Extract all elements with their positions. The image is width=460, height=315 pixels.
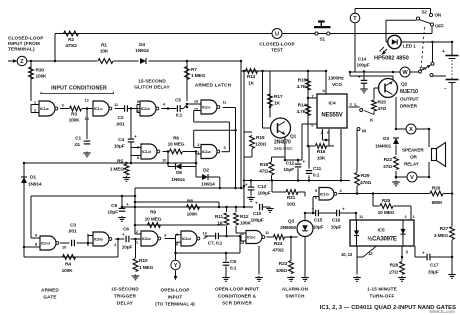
svg-text:10μF: 10μF — [107, 210, 118, 216]
svg-text:15-SECOND: 15-SECOND — [138, 79, 166, 84]
svg-text:470Ω: 470Ω — [272, 248, 284, 254]
svg-text:1N914: 1N914 — [201, 182, 215, 188]
svg-text:TERMINAL): TERMINAL) — [8, 47, 35, 52]
svg-text:33μF: 33μF — [428, 270, 439, 276]
svg-text:10K: 10K — [100, 49, 109, 55]
svg-text:R10: R10 — [139, 258, 148, 264]
svg-text:R30: R30 — [36, 68, 45, 74]
svg-text:OUTPUT: OUTPUT — [400, 97, 419, 102]
svg-text:C8: C8 — [230, 259, 236, 265]
svg-text:RELAY: RELAY — [404, 162, 420, 167]
svg-text:0.1: 0.1 — [176, 113, 183, 119]
svg-text:100K: 100K — [69, 118, 81, 124]
svg-text:R28: R28 — [390, 263, 399, 269]
svg-text:R8: R8 — [187, 199, 193, 205]
svg-text:R29: R29 — [361, 173, 370, 179]
svg-text:12: 12 — [368, 251, 373, 256]
svg-text:2N5060: 2N5060 — [280, 225, 296, 231]
svg-text:3 MEG: 3 MEG — [434, 233, 449, 239]
svg-text:X: X — [409, 127, 413, 133]
svg-text:47Ω: 47Ω — [378, 106, 387, 112]
svg-text:10μF: 10μF — [331, 225, 342, 231]
svg-text:R16: R16 — [317, 149, 326, 155]
svg-text:DRIVER: DRIVER — [400, 104, 418, 109]
svg-text:27Ω: 27Ω — [383, 164, 392, 170]
svg-text:INPUT CONDITIONER: INPUT CONDITIONER — [51, 86, 107, 92]
svg-text:Z: Z — [20, 59, 24, 65]
svg-text:TEST: TEST — [271, 48, 283, 53]
svg-text:15-SECOND: 15-SECOND — [111, 287, 139, 292]
svg-text:IC3-c: IC3-c — [247, 235, 256, 240]
svg-text:NE555V: NE555V — [321, 113, 342, 119]
svg-text:10μF: 10μF — [283, 167, 294, 173]
svg-text:W: W — [402, 70, 408, 76]
svg-text:R15: R15 — [298, 78, 307, 84]
svg-text:C14: C14 — [358, 57, 367, 62]
svg-text:SPEAKER: SPEAKER — [402, 148, 424, 153]
svg-text:C6: C6 — [123, 227, 129, 233]
svg-text:470Ω: 470Ω — [360, 180, 372, 186]
svg-text:2N4870: 2N4870 — [274, 140, 291, 146]
svg-text:C17: C17 — [430, 263, 439, 269]
svg-text:C5: C5 — [175, 98, 181, 104]
svg-text:S1: S1 — [320, 37, 326, 42]
svg-text:R4: R4 — [65, 262, 71, 268]
svg-text:1K: 1K — [217, 221, 224, 227]
svg-text:R6: R6 — [173, 136, 179, 142]
svg-text:Y: Y — [174, 263, 178, 269]
svg-text:506KJL.com: 506KJL.com — [429, 309, 455, 314]
svg-text:CLOSED-LOOP: CLOSED-LOOP — [8, 36, 43, 41]
svg-text:IC5: IC5 — [377, 228, 384, 234]
svg-text:D4: D4 — [139, 42, 145, 48]
svg-text:R11: R11 — [215, 214, 224, 220]
svg-text:SCR DRIVER: SCR DRIVER — [222, 301, 252, 306]
svg-text:100μF: 100μF — [258, 191, 271, 197]
svg-text:10μF: 10μF — [114, 144, 125, 150]
svg-text:IC3-b: IC3-b — [94, 237, 103, 242]
svg-text:T: T — [353, 16, 357, 22]
svg-text:D1: D1 — [30, 175, 36, 181]
svg-text:10 MEG: 10 MEG — [378, 210, 395, 216]
svg-text:1 MEG: 1 MEG — [110, 167, 125, 173]
svg-text:OR: OR — [410, 155, 417, 160]
svg-text:Q2: Q2 — [401, 82, 408, 88]
svg-text:D2: D2 — [203, 168, 209, 174]
svg-text:C15: C15 — [314, 218, 323, 224]
svg-text:1N914: 1N914 — [135, 48, 149, 54]
svg-text:1K: 1K — [274, 101, 281, 107]
svg-text:S2: S2 — [422, 10, 428, 15]
svg-text:IC1-a: IC1-a — [40, 106, 49, 111]
svg-text:1K: 1K — [248, 81, 255, 87]
svg-text:R3: R3 — [71, 112, 77, 118]
svg-text:2Hz OSC: 2Hz OSC — [274, 146, 294, 151]
svg-text:10μF: 10μF — [122, 245, 133, 251]
svg-text:TURN-OFF: TURN-OFF — [369, 294, 394, 299]
svg-text:MJE710: MJE710 — [400, 89, 418, 95]
svg-text:C7, 0.1: C7, 0.1 — [208, 241, 223, 247]
svg-text:ARMED: ARMED — [41, 288, 59, 293]
svg-text:+: + — [442, 49, 445, 55]
svg-text:27Ω: 27Ω — [389, 270, 398, 276]
svg-text:IC2-c: IC2-c — [202, 105, 211, 110]
svg-text:R21: R21 — [287, 195, 296, 201]
svg-text:1N4001: 1N4001 — [375, 144, 391, 150]
svg-text:10μF: 10μF — [313, 225, 324, 231]
svg-text:R7: R7 — [191, 67, 197, 73]
svg-text:4.7K: 4.7K — [296, 109, 306, 115]
svg-text:(TO TERMINAL 4): (TO TERMINAL 4) — [155, 302, 195, 307]
svg-text:R24: R24 — [274, 241, 283, 247]
svg-text:R23: R23 — [279, 261, 288, 267]
svg-text:R2: R2 — [68, 37, 74, 43]
svg-text:Q1: Q1 — [290, 134, 297, 140]
svg-text:120Ω: 120Ω — [255, 142, 267, 148]
svg-text:R19: R19 — [256, 135, 265, 141]
svg-text:R14: R14 — [298, 103, 307, 109]
svg-text:R27: R27 — [440, 226, 449, 232]
svg-text:GLITCH DELAY: GLITCH DELAY — [134, 85, 170, 90]
svg-text:IC3-d: IC3-d — [182, 236, 191, 241]
svg-text:100K: 100K — [62, 268, 74, 274]
svg-text:C3: C3 — [70, 223, 76, 229]
svg-text:1 MEG: 1 MEG — [139, 265, 154, 271]
svg-text:OPEN-LOOP INPUT: OPEN-LOOP INPUT — [215, 287, 259, 292]
svg-text:CLOSED-LOOP: CLOSED-LOOP — [259, 42, 294, 47]
svg-text:SWITCH: SWITCH — [285, 294, 305, 299]
svg-text:680K: 680K — [432, 200, 444, 206]
svg-text:C13: C13 — [258, 184, 267, 190]
svg-text:0.1: 0.1 — [230, 266, 237, 272]
svg-text:M: M — [362, 129, 366, 134]
svg-text:L: L — [354, 102, 357, 107]
svg-text:D3: D3 — [383, 136, 389, 142]
svg-text:IC2-b: IC2-b — [141, 106, 150, 111]
svg-text:R25: R25 — [382, 198, 391, 204]
svg-text:100μF: 100μF — [357, 63, 370, 68]
svg-text:ARMED LATCH: ARMED LATCH — [195, 83, 232, 89]
svg-text:10K: 10K — [317, 156, 326, 162]
svg-text:INPUT: INPUT — [168, 295, 183, 300]
svg-text:R13: R13 — [247, 74, 256, 80]
svg-text:IC2-a: IC2-a — [202, 149, 211, 154]
svg-text:LED 1: LED 1 — [403, 44, 416, 49]
svg-text:0.1: 0.1 — [313, 173, 320, 179]
svg-text:ALARM-ON: ALARM-ON — [282, 287, 309, 292]
svg-text:100μF: 100μF — [250, 218, 263, 224]
svg-text:.001: .001 — [116, 122, 125, 128]
svg-text:47Ω: 47Ω — [259, 169, 268, 175]
svg-text:10 MEG: 10 MEG — [168, 142, 185, 148]
svg-text:1300Hz: 1300Hz — [328, 76, 344, 82]
svg-text:C9: C9 — [111, 203, 117, 209]
svg-text:VCO: VCO — [332, 82, 342, 88]
svg-text:100K: 100K — [187, 212, 199, 218]
svg-text:1N914: 1N914 — [28, 182, 42, 188]
svg-text:ON: ON — [435, 13, 442, 18]
svg-text:Q3: Q3 — [288, 219, 295, 225]
svg-text:C1: C1 — [75, 136, 81, 142]
svg-text:1 MEG: 1 MEG — [191, 73, 206, 79]
svg-text:IC3-a: IC3-a — [142, 236, 151, 241]
svg-text:HP5082 4850: HP5082 4850 — [374, 56, 409, 62]
svg-text:10Ω: 10Ω — [287, 202, 296, 208]
svg-text:R17: R17 — [274, 94, 283, 100]
svg-text:C10: C10 — [253, 211, 262, 217]
svg-text:GATE: GATE — [43, 295, 56, 300]
svg-text:V: V — [410, 175, 414, 181]
svg-text:1N914: 1N914 — [171, 177, 185, 183]
svg-text:10 MEG: 10 MEG — [145, 217, 162, 223]
svg-text:CONDITIONER &: CONDITIONER & — [218, 294, 257, 299]
svg-text:U: U — [275, 32, 279, 38]
svg-text:R12: R12 — [240, 214, 249, 220]
svg-text:R18: R18 — [260, 162, 269, 168]
svg-text:C12: C12 — [286, 161, 295, 167]
svg-text:R1: R1 — [101, 43, 107, 49]
svg-text:INPUT (FROM: INPUT (FROM — [8, 41, 40, 46]
svg-text:C11: C11 — [313, 166, 322, 172]
svg-text:D5: D5 — [176, 170, 182, 176]
svg-text:TRIGGER: TRIGGER — [114, 294, 137, 299]
svg-text:½CA3097E: ½CA3097E — [367, 236, 397, 243]
svg-text:.001: .001 — [68, 229, 77, 235]
svg-text:R20: R20 — [378, 100, 387, 106]
svg-text:IC4: IC4 — [328, 101, 335, 107]
svg-text:OFF: OFF — [435, 24, 444, 29]
svg-text:IC1-c: IC1-c — [94, 106, 103, 111]
svg-text:C4: C4 — [118, 137, 124, 143]
svg-text:DELAY: DELAY — [117, 301, 133, 306]
svg-text:IC2-d: IC2-d — [41, 241, 50, 246]
svg-text:100Ω: 100Ω — [276, 268, 288, 274]
svg-text:C2: C2 — [118, 115, 124, 121]
svg-text:R22: R22 — [384, 157, 393, 163]
svg-text:R9: R9 — [150, 210, 156, 216]
svg-text:.01: .01 — [74, 142, 81, 148]
svg-text:4.7K: 4.7K — [296, 84, 306, 90]
svg-text:1-15 MINUTE: 1-15 MINUTE — [367, 287, 397, 292]
svg-text:R5: R5 — [117, 159, 123, 165]
svg-text:10, 13: 10, 13 — [341, 252, 353, 257]
svg-text:C16: C16 — [332, 218, 341, 224]
svg-text:IC1-b: IC1-b — [320, 191, 329, 196]
svg-text:OPEN-LOOP: OPEN-LOOP — [161, 288, 190, 293]
svg-text:R26: R26 — [432, 186, 441, 192]
svg-text:100K: 100K — [36, 74, 48, 80]
svg-text:IC1-d: IC1-d — [142, 149, 151, 154]
svg-text:470Ω: 470Ω — [65, 43, 77, 49]
